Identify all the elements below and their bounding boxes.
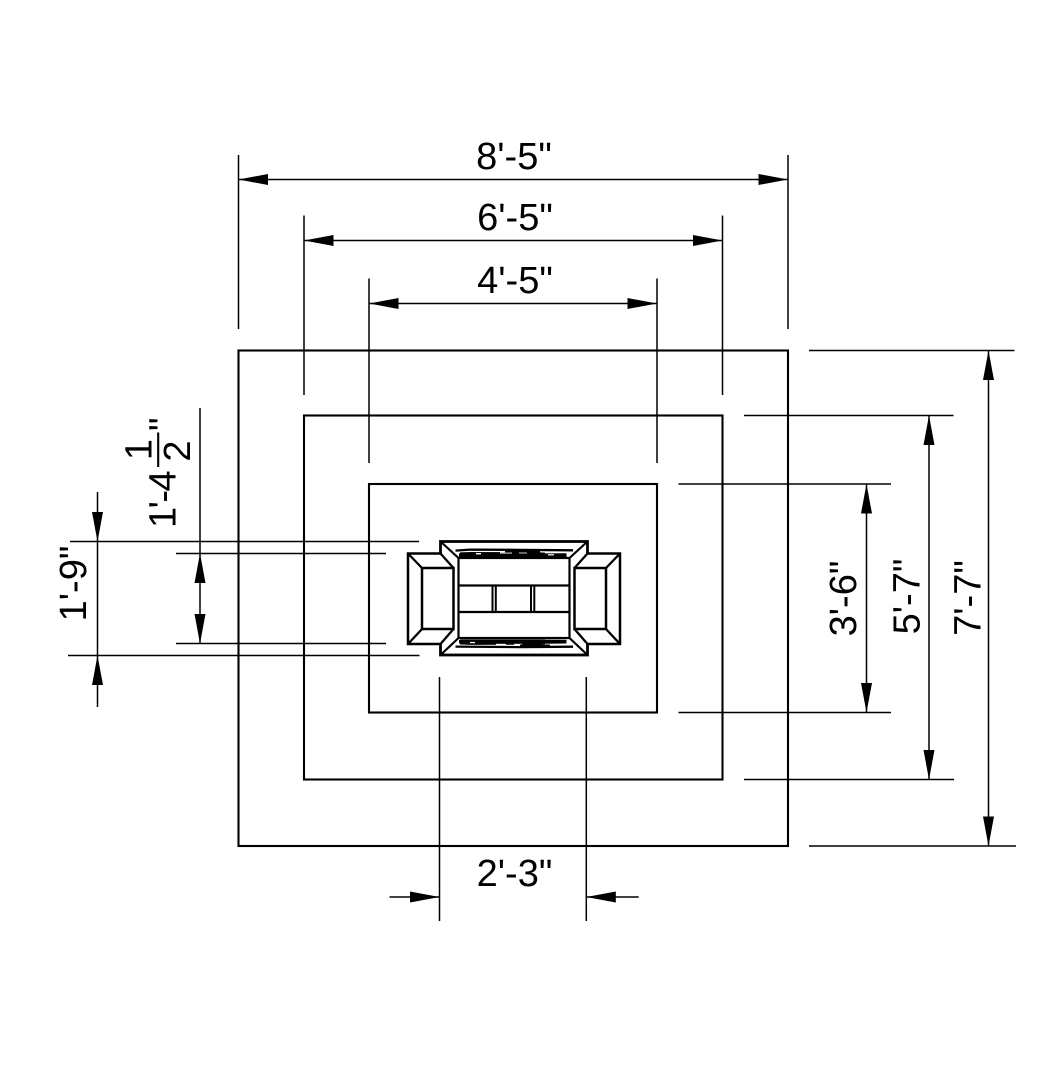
dim 3'-6" extension line bottom [679,712,892,714]
right wing far face edges [588,554,621,645]
top hatch smear band [456,550,574,558]
svg-text:3'-6": 3'-6" [823,561,865,637]
arrow 1'-9" top (outside pointing down) [92,512,103,542]
middle burner band top line [459,584,570,586]
dim 5'-7" extension line top [744,415,954,417]
fire pit frame miter diagonal bottom-right [570,638,588,655]
svg-text:2'-3": 2'-3" [477,853,553,895]
dim 2'-3" dimension tail right [586,896,638,898]
dim 6'-5" dimension line [304,240,723,242]
dim 5'-7" dimension line [928,416,930,780]
arrow 3'-6" top [861,484,872,514]
svg-text:7'-7": 7'-7" [948,560,990,636]
dim 7'-7" extension line bottom [809,845,1016,847]
svg-text:": " [143,418,185,432]
middle burner band bottom line [459,611,570,613]
arrow 5'-7" top [924,416,935,446]
fire pit frame miter diagonal bottom-left [441,638,459,655]
left wing near face [422,568,454,629]
dim 1'-9" extension line bottom [68,655,420,657]
dim 7'-7" dimension line [988,351,990,847]
arrow 7'-7" top [983,351,994,381]
svg-text:2: 2 [157,440,199,461]
dim 1'-9" dimension line [97,492,99,707]
outer base rectangle [239,351,789,847]
dim 7'-7" extension line top [809,350,1015,352]
bottom hatch smear band [456,639,574,647]
dim 2'-3" dimension tail left [390,896,440,898]
dim 6'-5" extension line right [722,216,724,396]
dim 8'-5" dimension line [239,179,789,181]
burner divider left pair [492,586,494,613]
dim 2'-3" extension line right [585,677,587,921]
svg-text:4'-5": 4'-5" [477,260,553,302]
arrow 6'-5" left [304,235,334,246]
dim 8'-5" extension line left [238,155,240,329]
svg-text:1'-9": 1'-9" [53,546,95,622]
dim 1'-4 1/2" extension line bottom [176,643,386,645]
svg-text:5'-7": 5'-7" [887,559,929,635]
arrow 4'-5" left [369,298,399,309]
dim 1'-9" extension line top [70,541,419,543]
arrow 3'-6" bottom [861,683,872,713]
dim 2'-3" extension line left [439,677,441,921]
dim 3'-6" dimension line [866,484,868,713]
arrow 1'-9" bottom (outside pointing up) [92,656,103,686]
dim 5'-7" extension line bottom [744,779,954,781]
dim 6'-5" extension line left [303,216,305,396]
fire pit frame inner rect [459,558,570,638]
burner divider right pair [530,586,532,613]
right wing silhouette [575,554,621,645]
middle base rectangle [304,416,723,780]
arrow 7'-7" bottom [983,817,994,847]
arrow 4'-5" right [628,298,658,309]
fire pit frame miter diagonal top-left [441,542,459,559]
arrowheads [92,174,994,903]
svg-text:1: 1 [119,439,161,460]
arrow 5'-7" bottom [924,750,935,780]
dim 1'-4 1/2" dimension line [199,408,201,644]
text 1'-4 1/2" rotated with fraction [119,418,200,529]
arrow 1'-4 1/2" top (inside pointing up) [195,554,206,584]
left wing corner diagonals [408,554,422,569]
arrow 1'-4 1/2" bottom (inside pointing down) [195,614,206,644]
dim 4'-5" extension line right [656,279,658,464]
arrow 8'-5" right [759,174,789,185]
right wing corner diagonals [606,554,620,569]
arrow 2'-3" right (outside pointing left) [586,892,616,903]
dim 4'-5" dimension line [369,303,657,305]
svg-text:1'-4: 1'-4 [143,470,185,528]
left wing silhouette [408,554,454,645]
arrow 6'-5" right [693,235,723,246]
svg-text:6'-5": 6'-5" [477,197,553,239]
dim 4'-5" extension line left [368,279,370,464]
dim 8'-5" extension line right [787,155,789,329]
dim 1'-4 1/2" extension line top [176,553,386,555]
inner base rectangle [369,484,657,713]
arrow 2'-3" left (outside pointing right) [410,892,440,903]
fire pit frame miter diagonal top-right [570,542,588,559]
left wing far face edges [408,554,441,645]
arrow 8'-5" left [239,174,269,185]
right wing near face [575,568,607,629]
svg-text:8'-5": 8'-5" [476,136,552,178]
fire pit main frame outer rect [441,542,588,656]
dim 3'-6" extension line top [679,483,892,485]
